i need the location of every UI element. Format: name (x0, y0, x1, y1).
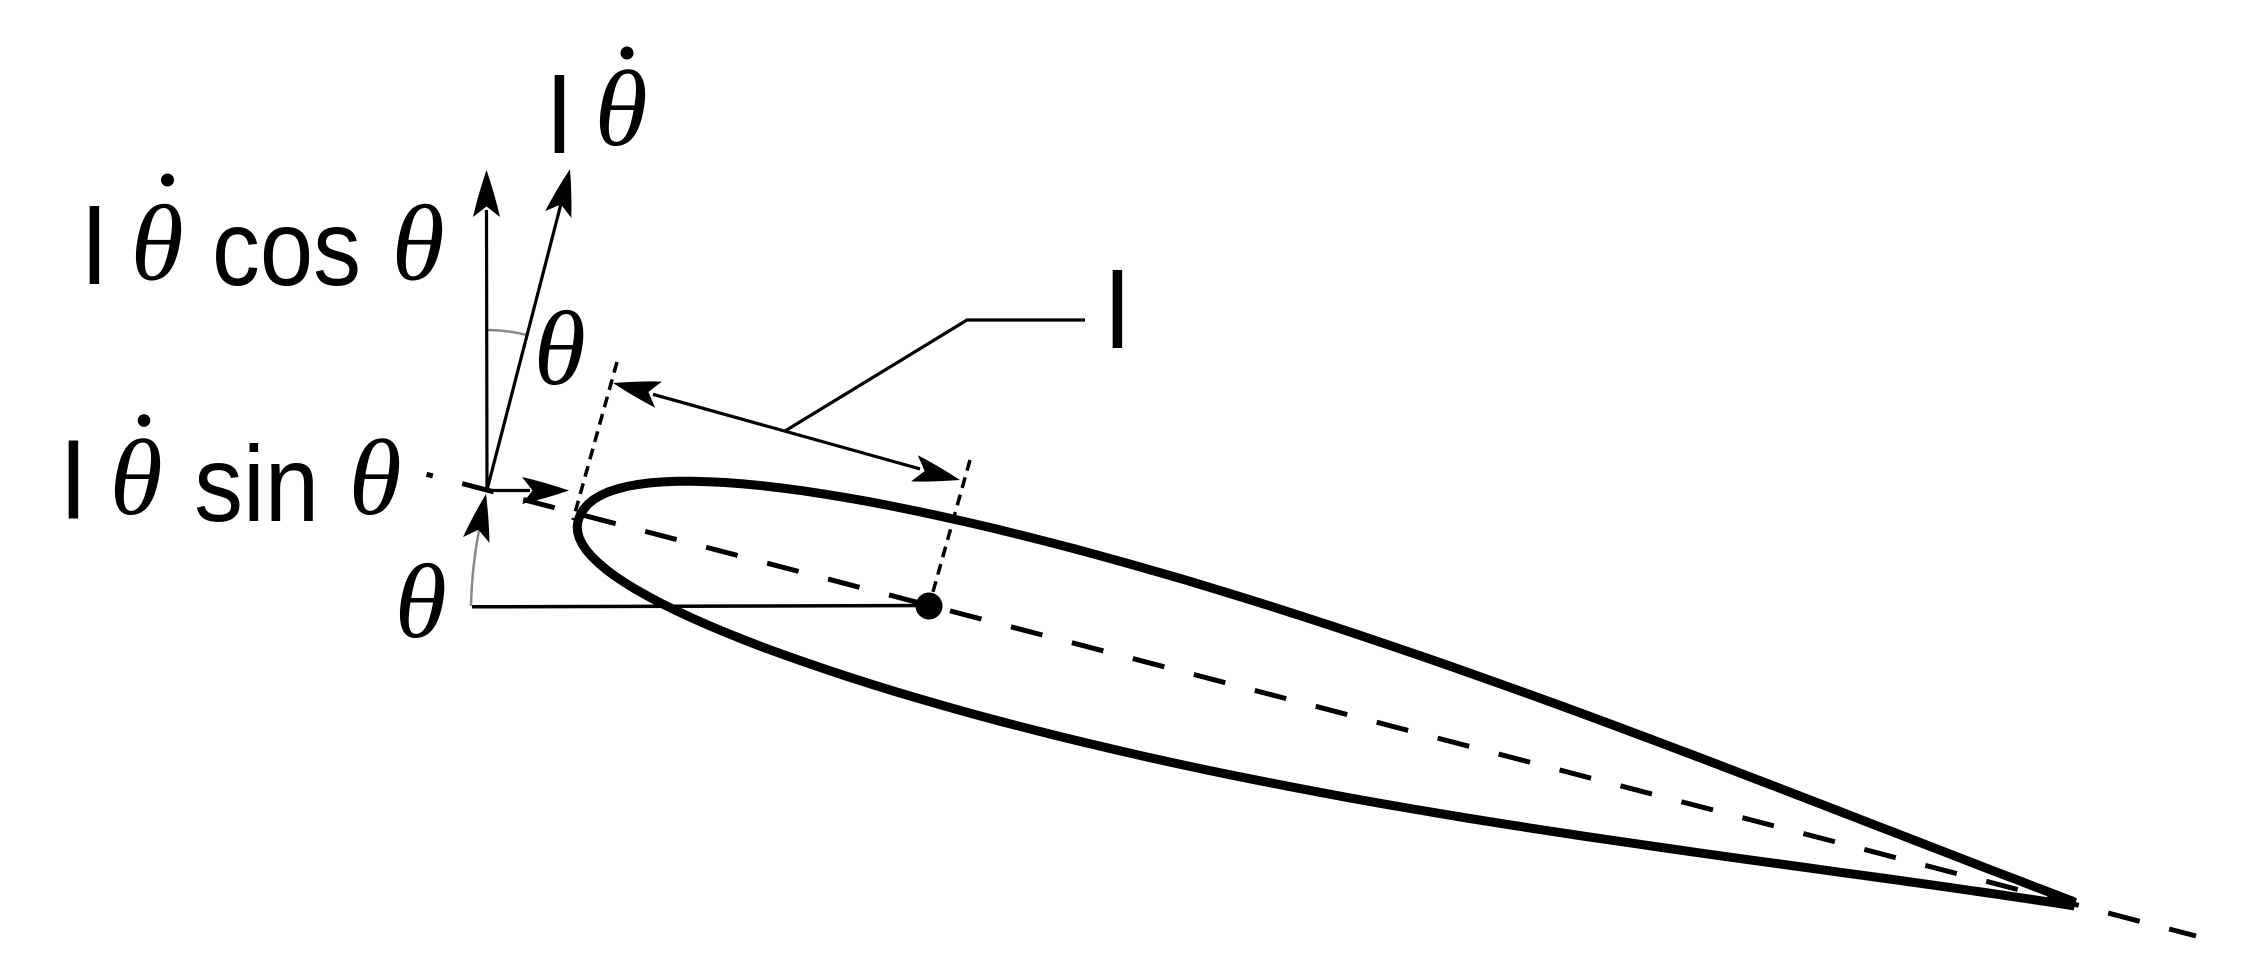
vertical velocity vector (l theta-dot cos theta) (485, 210, 489, 490)
svg-text:θ: θ (131, 185, 184, 304)
svg-text:cos: cos (212, 187, 361, 308)
tilted velocity vector (l theta-dot) (487, 200, 562, 490)
leading-edge extension tick (573, 362, 617, 520)
dimension line for l (653, 394, 920, 469)
svg-text:l: l (547, 55, 571, 176)
pivot extension tick (929, 460, 970, 606)
dashed chord line through pivot (427, 474, 2197, 936)
horizontal velocity vector (l theta-dot sin theta) (487, 489, 530, 492)
leader line to label l (785, 320, 1085, 431)
svg-text:l: l (61, 421, 85, 542)
horizontal reference line (472, 606, 929, 607)
svg-text:sin: sin (194, 423, 319, 544)
svg-text:θ: θ (395, 543, 447, 660)
svg-text:l: l (1105, 250, 1129, 371)
svg-text:θ: θ (534, 290, 586, 407)
svg-text:θ: θ (349, 419, 402, 538)
airfoil outline (577, 481, 2071, 905)
upper angle arc theta (487, 330, 527, 335)
svg-text:θ: θ (595, 50, 648, 169)
svg-text:l: l (82, 186, 106, 307)
svg-text:θ: θ (392, 185, 445, 304)
pivot point dot (916, 593, 943, 620)
lower angle arc theta with arrowhead (471, 523, 481, 606)
svg-text:θ: θ (110, 419, 163, 538)
